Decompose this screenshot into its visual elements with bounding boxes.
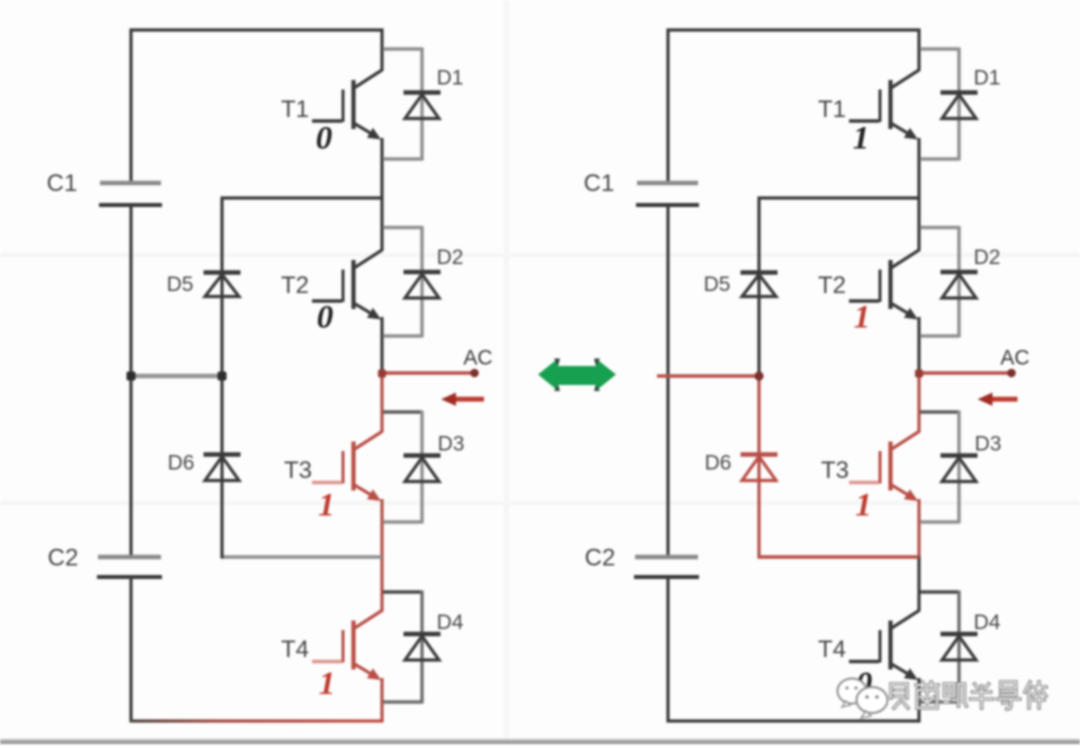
svg-text:C2: C2 [48, 545, 79, 572]
wire main rail T2-emitter to AC node [917, 317, 920, 374]
label D3 [438, 433, 465, 456]
transistor T1 [849, 70, 919, 140]
state digit 1 of T3 [318, 488, 335, 524]
wire D4 bottom connector [383, 700, 422, 703]
transistor T1 [312, 70, 382, 140]
current direction arrow (red, pointing left) [978, 393, 1018, 406]
diode D2 [404, 272, 441, 298]
wire D4 bottom connector [920, 700, 959, 703]
wire D1 bottom connector [920, 157, 959, 160]
label D6 [168, 452, 195, 475]
wire clamp branch lower (D6) [757, 376, 760, 559]
wire main rail AC node to T3 (red path) [917, 372, 920, 433]
wire D3 branch vertical [420, 411, 423, 524]
wire top bus [130, 28, 384, 31]
node AC terminal dot [470, 369, 479, 378]
capacitor C2 [634, 557, 699, 577]
diode D2 [941, 272, 978, 298]
node AC junction on rail [378, 370, 386, 378]
label D3 [975, 433, 1002, 456]
wire neutral tie (red commutation path) [657, 374, 759, 378]
svg-text:1: 1 [319, 666, 336, 702]
wire bottom bus (red return path) [130, 719, 384, 722]
wire D3 top connector [383, 410, 422, 413]
wire AC output lead [919, 371, 1011, 374]
svg-text:T2: T2 [281, 272, 309, 299]
state digit 1 of T2 [854, 300, 871, 336]
svg-text:D4: D4 [437, 611, 464, 634]
wire D2 bottom connector [383, 334, 422, 337]
svg-text:D3: D3 [438, 433, 465, 456]
diode D3 [941, 456, 978, 482]
label D4 [974, 611, 1001, 634]
svg-text:C1: C1 [584, 170, 615, 197]
wire left rail middle (C1 to C2) [666, 205, 669, 557]
wire D1 bottom connector [383, 157, 422, 160]
wire D2 bottom connector [920, 334, 959, 337]
label D2 [437, 246, 464, 269]
svg-text:1: 1 [855, 488, 872, 524]
diode D4 [941, 634, 978, 660]
transistor T2 [849, 250, 919, 320]
label C1 [584, 170, 615, 197]
transistor T3 [312, 432, 382, 502]
svg-text:T4: T4 [818, 636, 846, 663]
label T2 [818, 272, 846, 299]
wire D2 top connector [383, 226, 422, 229]
label AC [463, 347, 492, 370]
label D4 [437, 611, 464, 634]
bottom separator bar [0, 739, 1080, 744]
svg-text:D5: D5 [704, 273, 731, 296]
diode D1 [941, 93, 978, 119]
state digit 1 of T4 [319, 666, 336, 702]
diode D4 [404, 634, 441, 660]
svg-text:0: 0 [316, 121, 333, 157]
svg-text:T1: T1 [281, 96, 309, 123]
svg-text:C2: C2 [585, 545, 616, 572]
wire main rail top (bus to T1) [917, 29, 920, 72]
transistor T4 [849, 611, 919, 681]
wire main rail T4-emitter to bottom bus [380, 678, 383, 723]
wire bottom bus [667, 719, 921, 722]
svg-text:1: 1 [853, 121, 870, 157]
wire D1 branch vertical [420, 48, 423, 161]
wire left rail upper (to C1) [129, 29, 132, 183]
label D1 [437, 67, 464, 90]
label T1 [281, 96, 309, 123]
node neutral junction at clamp branch [754, 371, 763, 380]
svg-text:D1: D1 [974, 67, 1001, 90]
wire T3/T4 junction to clamp branch [758, 555, 920, 559]
transistor T3 [849, 432, 919, 502]
svg-text:D5: D5 [167, 273, 194, 296]
node AC junction on rail [915, 370, 923, 378]
svg-text:T1: T1 [818, 96, 846, 123]
wire main rail T2-emitter to AC node [380, 317, 383, 374]
svg-text:AC: AC [463, 347, 492, 370]
wire D3 bottom connector [920, 520, 959, 523]
wire D3 branch vertical [957, 411, 960, 524]
wire D4 branch vertical [957, 591, 960, 704]
wire main rail mid junction to T4 [917, 556, 920, 612]
capacitor C1 [99, 183, 162, 205]
transistor T4 [312, 611, 382, 681]
svg-text:1: 1 [854, 300, 871, 336]
wire T1/T2 junction to clamp branch [221, 196, 383, 199]
svg-text:D2: D2 [437, 246, 464, 269]
state digit 1 of T3 [855, 488, 872, 524]
svg-text:D4: D4 [974, 611, 1001, 634]
wire left rail lower (C2 to bottom) [129, 577, 132, 723]
wire neutral tie (DC midpoint to clamp branch) [131, 374, 222, 378]
wire D3 bottom connector [383, 520, 422, 523]
diode D6 [204, 455, 241, 481]
wire D2 branch vertical [420, 226, 423, 338]
wire main rail mid junction to T4 [380, 556, 383, 612]
wire left rail lower (C2 to bottom) [666, 577, 669, 723]
node neutral at clamp branch [218, 372, 227, 381]
label T3 [284, 457, 312, 484]
wire main rail AC node to T3 (red path) [380, 372, 383, 433]
wire D4 branch vertical [420, 591, 423, 704]
wire main rail T4-emitter to bottom bus [917, 678, 920, 723]
label T1 [818, 96, 846, 123]
wire left rail middle (C1 to C2) [129, 205, 132, 557]
wire AC output lead [382, 371, 474, 374]
label T2 [281, 272, 309, 299]
label T4 [281, 636, 309, 663]
svg-text:D2: D2 [974, 246, 1001, 269]
svg-text:T4: T4 [281, 636, 309, 663]
diode D5 [741, 273, 778, 297]
svg-text:D6: D6 [705, 452, 732, 475]
svg-text:1: 1 [318, 488, 335, 524]
svg-text:AC: AC [1000, 347, 1029, 370]
wire clamp branch upper (D5) [757, 198, 760, 376]
svg-text:D1: D1 [437, 67, 464, 90]
svg-text:T3: T3 [821, 457, 849, 484]
wire main rail T1-emitter to T2 [917, 138, 920, 251]
wire T1/T2 junction to clamp branch [758, 196, 920, 199]
wire main rail T3-emitter to mid junction (red path) [380, 499, 383, 558]
wire T3/T4 junction to clamp branch [221, 555, 383, 559]
wire D4 top connector [383, 590, 422, 593]
label D1 [974, 67, 1001, 90]
wire clamp branch lower (D6) [220, 376, 223, 559]
label T3 [821, 457, 849, 484]
state digit 0 of T1 [316, 121, 333, 157]
wire D1 top connector [920, 47, 959, 50]
wire D2 branch vertical [957, 226, 960, 338]
bidirectional commutation arrow (green) [538, 359, 616, 392]
wire main rail T3-emitter to mid junction (red path) [917, 499, 920, 558]
label D5 [704, 273, 731, 296]
current direction arrow (red, pointing left) [441, 393, 484, 406]
label C2 [48, 545, 79, 572]
label D6 [705, 452, 732, 475]
wire D1 top connector [383, 47, 422, 50]
node neutral at left rail [127, 372, 136, 381]
diode D3 [404, 456, 441, 482]
wire D4 top connector [920, 590, 959, 593]
watermark logo: speech bubbles [838, 679, 888, 719]
state digit 0 of T2 [317, 300, 334, 336]
capacitor C1 [636, 183, 699, 205]
svg-text:D3: D3 [975, 433, 1002, 456]
label D5 [167, 273, 194, 296]
diode D5 [204, 273, 241, 297]
svg-text:T2: T2 [818, 272, 846, 299]
watermark text 贝茵凯半导体 (stylised outline) [891, 682, 1046, 709]
wire D1 branch vertical [957, 48, 960, 161]
state digit 0 of T4 [856, 666, 873, 702]
wire main rail T1-emitter to T2 [380, 138, 383, 251]
label AC [1000, 347, 1029, 370]
label T4 [818, 636, 846, 663]
diode D1 [404, 93, 441, 119]
svg-text:T3: T3 [284, 457, 312, 484]
capacitor C2 [97, 557, 162, 577]
wire clamp branch upper (D5) [220, 198, 223, 376]
wire top bus [667, 28, 921, 31]
transistor T2 [312, 250, 382, 320]
wire left rail upper (to C1) [666, 29, 669, 183]
svg-text:C1: C1 [47, 170, 78, 197]
state digit 1 of T1 [853, 121, 870, 157]
diode D6 [741, 455, 778, 481]
label C2 [585, 545, 616, 572]
svg-text:D6: D6 [168, 452, 195, 475]
wire D3 top connector [920, 410, 959, 413]
wire main rail top (bus to T1) [380, 29, 383, 72]
svg-text:0: 0 [317, 300, 334, 336]
label D2 [974, 246, 1001, 269]
wire D2 top connector [920, 226, 959, 229]
label C1 [47, 170, 78, 197]
node AC terminal dot [1007, 369, 1016, 378]
